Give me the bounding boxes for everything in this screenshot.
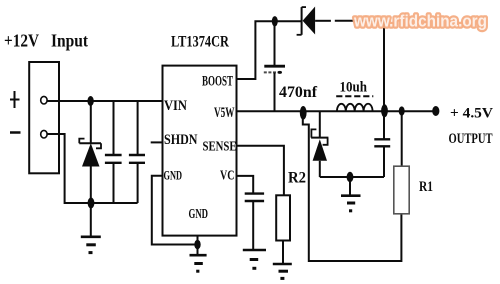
svg-text:470nf: 470nf <box>279 84 318 101</box>
svg-text:10uh: 10uh <box>340 80 368 96</box>
svg-text:BOOST: BOOST <box>202 74 233 90</box>
svg-text:+ 4.5V: + 4.5V <box>450 106 493 122</box>
svg-text:R2: R2 <box>288 170 306 187</box>
svg-text:V5W: V5W <box>214 105 235 121</box>
svg-text:SENSE: SENSE <box>203 140 237 155</box>
svg-text:VC: VC <box>220 168 235 183</box>
svg-text:OUTPUT: OUTPUT <box>449 131 493 147</box>
svg-text:R1: R1 <box>419 179 433 195</box>
svg-text:SHDN: SHDN <box>164 132 198 148</box>
svg-text:www.rfidchina.org: www.rfidchina.org <box>353 13 487 31</box>
svg-text:GND: GND <box>189 206 209 221</box>
svg-text:VIN: VIN <box>164 98 187 114</box>
svg-text:GND: GND <box>164 168 183 183</box>
svg-text:Input: Input <box>51 31 88 51</box>
svg-text:LT1374CR: LT1374CR <box>171 34 230 51</box>
svg-text:+12V: +12V <box>4 31 39 51</box>
